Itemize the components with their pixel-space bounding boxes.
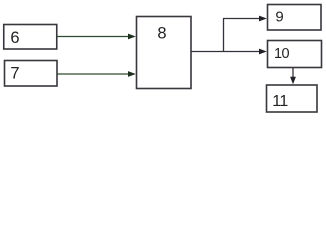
wire 7 to 8 [57,71,136,77]
block 9 [268,5,322,31]
wire 8 to 10 [191,49,267,55]
wire branch to 9 [223,16,267,22]
svg-text:9: 9 [275,9,283,26]
wire 10 to 11 [290,68,296,84]
block 11 [267,85,318,112]
svg-text:10: 10 [274,46,289,62]
block 7 [5,61,58,87]
svg-text:6: 6 [10,29,19,47]
wire 6 to 8 [57,34,136,40]
block 8 [137,17,192,89]
block 6 [4,25,57,50]
svg-text:8: 8 [157,25,166,43]
svg-text:7: 7 [10,64,19,82]
block 10 [268,41,322,68]
branch junction riser [223,19,225,52]
svg-text:11: 11 [272,93,288,110]
